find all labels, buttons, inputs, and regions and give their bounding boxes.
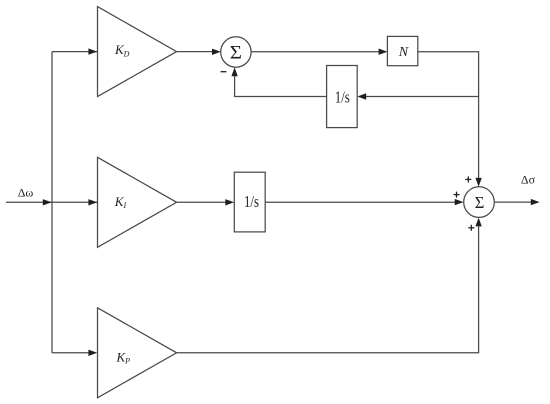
summer sum2 circle [464,187,495,218]
arrowhead into sum1 bottom [231,67,237,76]
amplifier KI triangle [98,157,177,247]
block 1/s integrator [234,172,265,232]
block N [387,36,417,65]
summer sum1 circle [221,37,251,67]
wire sum1 to N [251,51,380,53]
wire branch vertical [51,52,53,353]
arrowhead into sum2 top [475,178,481,187]
svg-text:Σ: Σ [230,42,242,63]
arrowhead into 1/s integrator [225,199,234,205]
sign plus at sum2 bottom [468,227,474,229]
arrowhead input into branch node [43,199,52,205]
arrowhead into sum1 left [212,49,221,55]
arrowhead into 1/s feedback [357,93,366,99]
svg-text:1/s: 1/s [335,87,350,106]
wire branch to KP [52,352,90,354]
wire sum2 output [494,201,531,203]
arrowhead into KI [88,199,97,205]
amplifier KP triangle [98,308,177,398]
block 1/s feedback [327,66,358,128]
svg-text:1/s: 1/s [244,192,259,211]
sign minus at sum1 [221,71,227,73]
wire KP to sum2 bottom [177,226,479,352]
wire input to branch node and on to KI [6,201,227,203]
svg-text:Δω: Δω [18,186,34,200]
svg-text:Σ: Σ [475,193,485,212]
sign plus at sum2 top [465,178,471,180]
svg-text:N: N [398,45,409,60]
svg-text:Δσ: Δσ [521,173,536,187]
arrowhead output [531,199,540,205]
wire feedback to 1/s [366,96,479,98]
arrowhead into N [379,49,388,55]
wire 1/s to sum1 bottom [235,76,327,96]
arrowhead into KD [88,48,97,54]
wire N to right vertical [418,52,479,179]
arrowhead into sum2 left [455,199,464,205]
wire branch to KD [52,51,213,53]
amplifier KD triangle [98,7,177,97]
arrowhead into sum2 bottom [475,218,481,227]
wire 1/s mid to sum2 [265,201,456,203]
arrowhead into KP [88,350,97,356]
sign plus at sum2 left [454,194,460,196]
